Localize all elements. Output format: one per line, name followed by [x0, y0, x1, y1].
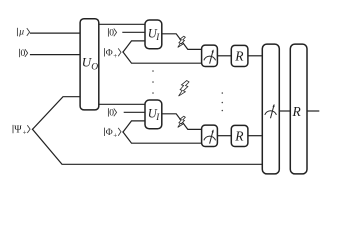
- svg-text:R: R: [234, 48, 244, 63]
- meter box (1): [202, 45, 218, 66]
- wire U_I output photon to meter (2): [162, 114, 202, 130]
- box R (1): [231, 45, 248, 66]
- wire |Phi+> lower branch to meter (2): [123, 132, 202, 143]
- vertical ellipsis dots between R blocks: [222, 92, 224, 111]
- box U_I (1): [145, 20, 162, 49]
- svg-text:0: 0: [109, 109, 114, 119]
- wire |mu> input to U_O: [31, 32, 81, 34]
- wire |Psi+> lower branch bottom rail to box A: [33, 129, 263, 164]
- svg-text:Ψ: Ψ: [14, 124, 22, 135]
- label ket Psi+: [13, 125, 30, 133]
- label ket 0 into U_I 1: [108, 28, 116, 36]
- photon bolt symbol on wire (2): [178, 116, 186, 127]
- wire U_I output photon to meter (1): [162, 34, 202, 50]
- photon bolt symbol on wire (1): [178, 36, 186, 47]
- label ket 0 into U_I 2: [108, 108, 116, 116]
- svg-text:0: 0: [109, 29, 114, 39]
- wire |Phi+> split upper branch into U_I (2): [123, 121, 145, 132]
- svg-text:+: +: [113, 52, 117, 60]
- label ket mu: [17, 28, 29, 36]
- tall box B with correction R: [290, 44, 307, 174]
- wire U_O bottom output to U_I (2): [99, 103, 145, 105]
- label ket 0 left: [20, 49, 28, 57]
- vertical ellipsis dots between U_I blocks: [152, 70, 154, 94]
- wire |Phi+> lower branch to meter (1): [123, 52, 202, 63]
- label ket Phi+ into U_I 1: [105, 48, 122, 56]
- svg-text:R: R: [234, 128, 244, 143]
- box R (2): [231, 125, 248, 146]
- svg-text:O: O: [91, 63, 98, 73]
- wire R to box A (1): [248, 55, 262, 57]
- box U_O: [80, 19, 99, 110]
- wire R to box A (2): [248, 135, 262, 137]
- box U_I (2): [145, 100, 162, 129]
- label ket Phi+ into U_I 2: [105, 128, 122, 136]
- big photon bolt symbol (ellipsis row): [179, 81, 189, 97]
- wire meter to R (2): [217, 135, 231, 137]
- wire meter to R (1): [217, 55, 231, 57]
- wire |Psi+> upper branch into U_O: [33, 97, 81, 130]
- svg-text:+: +: [23, 129, 27, 137]
- svg-text:Φ: Φ: [106, 128, 113, 138]
- svg-text:+: +: [113, 131, 117, 139]
- wire output of box B: [307, 110, 319, 112]
- wire |0> input to U_O: [31, 54, 81, 56]
- svg-text:μ: μ: [18, 27, 24, 37]
- svg-text:0: 0: [21, 49, 26, 59]
- svg-text:Φ: Φ: [106, 48, 113, 58]
- wire |Phi+> split upper branch into U_I (1): [123, 41, 145, 52]
- wire |0> into U_I (2): [124, 111, 145, 113]
- meter box (2): [202, 125, 218, 146]
- tall box A with collective measurement: [262, 44, 279, 174]
- wire U_O top output to U_I (1): [99, 23, 145, 25]
- wire |0> into U_I (1): [123, 31, 145, 33]
- svg-text:R: R: [292, 104, 302, 119]
- wire box A to box B: [279, 110, 290, 112]
